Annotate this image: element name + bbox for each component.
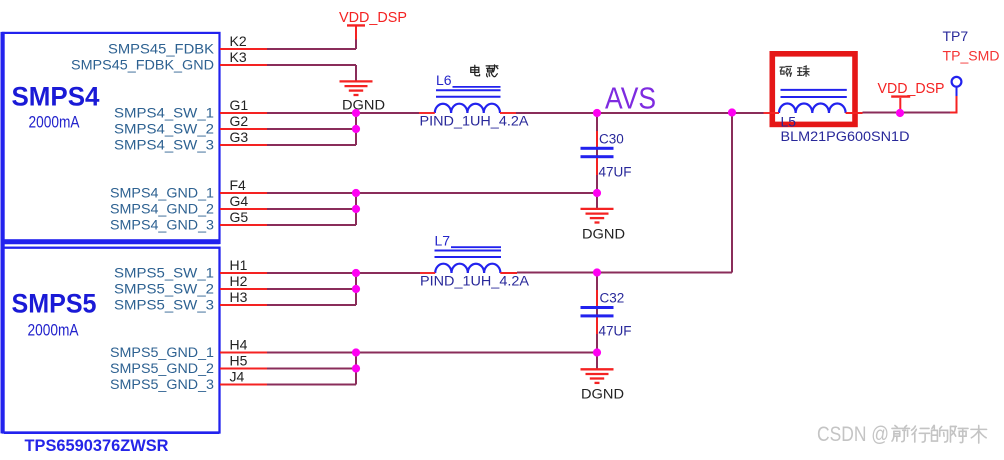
svg-text:G5: G5: [230, 209, 249, 225]
svg-text:BLM21PG600SN1D: BLM21PG600SN1D: [781, 129, 910, 144]
svg-text:H2: H2: [230, 273, 248, 289]
svg-text:G3: G3: [230, 129, 249, 145]
svg-text:SMPS4_GND_2: SMPS4_GND_2: [110, 202, 214, 217]
svg-text:SMPS5_SW_1: SMPS5_SW_1: [114, 266, 214, 281]
svg-text:SMPS4: SMPS4: [12, 82, 100, 112]
svg-text:SMPS5_GND_3: SMPS5_GND_3: [110, 377, 214, 392]
svg-text:VDD_DSP: VDD_DSP: [339, 9, 407, 26]
svg-text:DGND: DGND: [582, 227, 625, 242]
svg-text:H5: H5: [230, 352, 248, 368]
svg-text:G4: G4: [230, 193, 249, 209]
svg-text:SMPS5: SMPS5: [12, 289, 97, 319]
svg-text:TP7: TP7: [943, 28, 969, 44]
svg-text:K2: K2: [230, 33, 247, 49]
svg-text:J4: J4: [230, 368, 245, 384]
svg-text:VDD_DSP: VDD_DSP: [878, 80, 945, 97]
svg-text:H4: H4: [230, 336, 248, 352]
svg-text:H3: H3: [230, 289, 248, 305]
svg-text:DGND: DGND: [581, 387, 624, 402]
svg-text:SMPS4_GND_3: SMPS4_GND_3: [110, 218, 214, 233]
svg-text:C32: C32: [600, 291, 625, 306]
svg-text:G2: G2: [230, 113, 249, 129]
svg-text:DGND: DGND: [342, 98, 385, 113]
svg-text:AVS: AVS: [605, 81, 656, 116]
svg-text:L7: L7: [435, 232, 451, 248]
svg-text:SMPS4_SW_3: SMPS4_SW_3: [114, 138, 214, 153]
svg-text:SMPS4_SW_2: SMPS4_SW_2: [114, 122, 214, 137]
svg-text:L5: L5: [781, 113, 797, 129]
svg-text:47UF: 47UF: [599, 324, 632, 339]
svg-text:SMPS45_FDBK: SMPS45_FDBK: [108, 42, 214, 57]
svg-text:C30: C30: [599, 132, 624, 147]
svg-text:L6: L6: [436, 72, 452, 88]
svg-text:K3: K3: [230, 49, 247, 65]
svg-text:PIND_1UH_4.2A: PIND_1UH_4.2A: [420, 114, 529, 129]
svg-text:G1: G1: [230, 97, 249, 113]
svg-text:TPS6590376ZWSR: TPS6590376ZWSR: [25, 436, 169, 455]
svg-text:SMPS5_GND_2: SMPS5_GND_2: [110, 361, 214, 376]
svg-text:SMPS4_SW_1: SMPS4_SW_1: [114, 106, 214, 121]
svg-text:CSDN @: CSDN @: [817, 423, 889, 446]
svg-text:SMPS5_SW_3: SMPS5_SW_3: [114, 298, 214, 313]
svg-text:TP_SMD: TP_SMD: [943, 47, 1000, 63]
svg-text:H1: H1: [230, 257, 248, 273]
svg-text:F4: F4: [230, 177, 247, 193]
svg-text:47UF: 47UF: [599, 165, 632, 180]
svg-text:PIND_1UH_4.2A: PIND_1UH_4.2A: [420, 274, 529, 289]
svg-text:SMPS45_FDBK_GND: SMPS45_FDBK_GND: [71, 58, 214, 73]
svg-text:2000mA: 2000mA: [28, 321, 80, 340]
svg-text:2000mA: 2000mA: [29, 113, 81, 132]
svg-text:SMPS5_SW_2: SMPS5_SW_2: [114, 282, 214, 297]
svg-text:SMPS4_GND_1: SMPS4_GND_1: [110, 186, 214, 201]
svg-text:SMPS5_GND_1: SMPS5_GND_1: [110, 345, 214, 360]
